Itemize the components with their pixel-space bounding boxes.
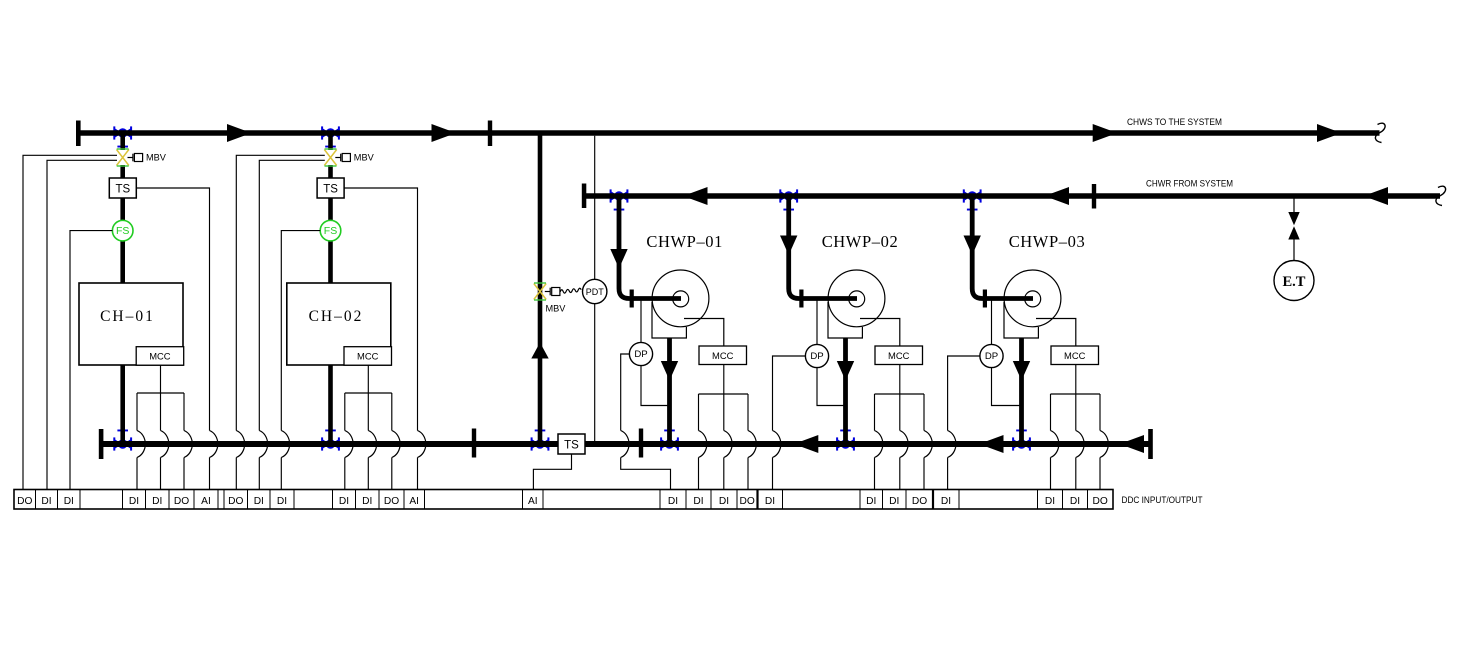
wire MCC5 splitter: [1051, 393, 1101, 395]
svg-text:CHWP–02: CHWP–02: [822, 232, 899, 251]
svg-text:DI: DI: [889, 496, 899, 507]
wire MCC3 to DI a: [698, 394, 700, 490]
instrument DP3 wire to discharge: [992, 368, 1022, 406]
wire hop FS2: [281, 431, 290, 458]
valve CHWP-01 suction stem: [614, 200, 625, 211]
strip divider 14: [355, 490, 357, 510]
starter MCC2 chiller: [344, 347, 392, 366]
wire MCC3 splitter: [699, 393, 749, 395]
svg-text:DI: DI: [941, 496, 951, 507]
wire DP1 to DI: [621, 354, 671, 490]
wire MCC2 splitter: [345, 392, 392, 394]
svg-text:DI: DI: [362, 496, 372, 507]
CHWP-03 suction flow arrow: [964, 236, 981, 256]
svg-text:TS: TS: [564, 439, 579, 451]
strip divider 26: [859, 490, 861, 510]
CHWP-03 discharge flow arrow: [1013, 361, 1030, 381]
svg-text:DI: DI: [254, 496, 264, 507]
pipe CHWP-02 suction drop and elbow: [789, 199, 857, 299]
valve CHWP-02 suction stem: [783, 200, 794, 211]
svg-text:DO: DO: [740, 496, 755, 507]
wire TS2 to AI: [344, 188, 417, 490]
strip divider 16: [403, 490, 405, 510]
CHWR left end cap: [582, 184, 587, 209]
pipe CH-02 discharge to bottom header: [328, 365, 333, 442]
wire MCC5 to DI a: [1050, 394, 1052, 490]
svg-text:MCC: MCC: [712, 350, 734, 361]
strip divider 11: [269, 490, 271, 510]
wire hop DP3: [948, 431, 957, 458]
svg-text:PDT: PDT: [586, 287, 605, 297]
CHWS flow arrow 2: [432, 124, 457, 142]
strip divider 7: [193, 490, 195, 510]
wire MCC1 to DI b: [160, 393, 162, 490]
strip divider 12: [293, 490, 295, 510]
strip divider 4: [122, 490, 124, 510]
starter MCC4 pump2: [875, 346, 923, 365]
wire hop TS1 over header: [210, 431, 219, 458]
wire TS1 to AI: [136, 188, 209, 490]
strip divider 8: [217, 490, 219, 510]
strip divider 10: [247, 490, 249, 510]
wire hop MCC2 a: [345, 431, 354, 458]
CHWS flow arrow 3: [1093, 124, 1118, 142]
strip divider 25: [782, 490, 784, 510]
wire hop MBV2 DO: [236, 431, 245, 458]
valve bypass stem: [535, 430, 546, 441]
wire MCC3 drop: [723, 365, 725, 395]
svg-text:DI: DI: [41, 496, 51, 507]
strip divider 15: [378, 490, 380, 510]
valve CH-02 return isolation: [321, 437, 340, 450]
pipe CHWR return header: [584, 193, 1440, 198]
wire CH-01 FS to chiller: [120, 241, 125, 285]
valve CHWP-02 suction (CHWR): [779, 189, 798, 202]
instrument TS3 on bottom header: [558, 434, 585, 454]
bottom header flow arrow 2: [979, 435, 1004, 453]
CHWS flange tick: [488, 121, 492, 147]
wire MCC1 to DI a: [136, 393, 138, 490]
strip divider 27: [882, 490, 884, 510]
svg-text:DI: DI: [277, 496, 287, 507]
pipe CHWP-03 suction drop and elbow: [972, 199, 1033, 299]
strip divider 29: [932, 490, 934, 510]
svg-text:DI: DI: [866, 496, 876, 507]
strip divider 33: [1087, 490, 1089, 510]
CHWP-01 discharge flow arrow: [661, 361, 678, 381]
valve CH-02 supply (CHWS): [321, 126, 340, 139]
starter MCC3 pump1: [699, 346, 747, 365]
strip divider 1: [35, 490, 37, 510]
svg-text:AI: AI: [409, 496, 419, 507]
wire E.T branch lower: [1293, 240, 1295, 261]
wire hop MCC1 c: [184, 431, 193, 458]
wire MCC2 to DO c: [391, 393, 393, 490]
instrument PDT differential pressure transmitter: [583, 279, 607, 303]
wire MCC5 drop: [1075, 365, 1077, 395]
CHWR flow arrow 2: [1045, 187, 1070, 205]
wire MCC3 to DI b: [723, 394, 725, 490]
wire DP2 to DI: [773, 356, 806, 490]
wire DP3 to DI: [948, 356, 980, 490]
svg-text:CHWR FROM SYSTEM: CHWR FROM SYSTEM: [1146, 179, 1233, 190]
valve CH-01 supply (CHWS): [113, 126, 132, 139]
wire E.T branch upper: [1293, 198, 1295, 212]
wire MCC3 to DO c: [747, 394, 749, 490]
svg-text:DO: DO: [228, 496, 243, 507]
wire MCC4 to DO c: [923, 394, 925, 490]
wire hop MBV2 DI: [259, 431, 268, 458]
strip divider 6: [168, 490, 170, 510]
svg-text:DO: DO: [174, 496, 189, 507]
strip divider 23: [736, 490, 738, 510]
strip divider 32: [1062, 490, 1064, 510]
wire MBV1 status DI: [47, 160, 117, 489]
wire MCC4 to DI a: [874, 394, 876, 490]
strip divider 18: [522, 490, 524, 510]
svg-text:DP: DP: [810, 351, 823, 362]
svg-text:DI: DI: [152, 496, 162, 507]
strip divider 21: [685, 490, 687, 510]
wire hop DP1: [621, 431, 630, 458]
valve CHWP-03 suction stem: [967, 200, 978, 211]
svg-text:CHWP–01: CHWP–01: [646, 232, 723, 251]
chiller CH-02: [287, 283, 391, 365]
wire PDT sense to bottom header: [594, 304, 596, 442]
valve CHWP-02 discharge stem: [840, 430, 851, 441]
wire CH-02 FS to chiller: [328, 241, 333, 285]
valve CHWP-01 discharge stem: [664, 430, 675, 441]
svg-text:MCC: MCC: [1064, 350, 1086, 361]
valve MBV1 motorized: [117, 148, 143, 166]
instrument DP1 wire to suction: [640, 301, 642, 343]
strip divider 22: [710, 490, 712, 510]
valve CHWP-03 discharge stem: [1016, 430, 1027, 441]
svg-text:DI: DI: [668, 496, 678, 507]
svg-text:DP: DP: [634, 349, 647, 360]
valve E.T relief upper triangle: [1288, 212, 1299, 225]
wire FS2 to DI: [281, 231, 320, 490]
instrument DP2 wire to discharge: [817, 368, 846, 406]
CHWP-02 suction flange: [799, 290, 803, 308]
wire MCC4 to DI b: [899, 394, 901, 490]
valve bypass at bottom header: [531, 437, 550, 450]
pump CHWP-02: [828, 270, 900, 346]
instrument DP2 differential pressure switch: [805, 344, 828, 367]
strip divider 20: [659, 490, 661, 510]
bypass flow arrow up: [531, 343, 548, 359]
valve CH-02 return stem: [325, 430, 336, 441]
valve E.T relief lower triangle: [1288, 226, 1299, 239]
wire hop MCC1 b: [161, 431, 170, 458]
svg-text:AI: AI: [201, 496, 211, 507]
strip divider 28: [905, 490, 907, 510]
svg-text:FS: FS: [324, 225, 337, 237]
strip divider 13: [332, 490, 334, 510]
wire TS3 to AI: [533, 454, 571, 490]
svg-text:DO: DO: [912, 496, 927, 507]
wire hop MCC3 b: [724, 431, 733, 458]
svg-text:CHWP–03: CHWP–03: [1009, 232, 1086, 251]
svg-text:TS: TS: [323, 183, 338, 195]
wire MCC2 to DI b: [367, 393, 369, 490]
valve CHWP-01 suction (CHWR): [610, 189, 629, 202]
strip divider 2: [57, 490, 59, 510]
bottom header flow arrow 3: [1120, 435, 1145, 453]
bottom header left end cap: [99, 429, 104, 459]
wire MCC5 to DI b: [1075, 394, 1077, 490]
strip divider 24: [756, 490, 758, 510]
wire CH-01 TS to FS: [120, 198, 125, 222]
pipe CHWS supply header: [78, 130, 1380, 136]
starter MCC1 chiller: [136, 347, 184, 366]
instrument E.T expansion tank: [1274, 261, 1314, 301]
strip divider 19: [542, 490, 544, 510]
wire MCC2 to DI a: [344, 393, 346, 490]
CHWR flow arrow 1: [683, 187, 708, 205]
pipe CHWP-01 suction drop and elbow: [619, 199, 681, 299]
instrument FS1 flow switch: [112, 220, 133, 241]
svg-text:DO: DO: [384, 496, 399, 507]
CHWP-01 suction flange: [630, 290, 634, 308]
valve CH-01 supply stem: [117, 137, 128, 148]
CHWR flange tick: [1092, 184, 1096, 209]
wire MCC1 splitter: [137, 392, 184, 394]
wire hop MCC4 a: [875, 431, 884, 458]
instrument TS2 temperature switch: [317, 178, 344, 198]
svg-text:CH–01: CH–01: [100, 308, 155, 325]
svg-text:E.T: E.T: [1283, 274, 1306, 290]
wire capillary MBV3 to PDT: [560, 288, 581, 293]
bottom header flow arrow 1: [794, 435, 819, 453]
wire hop MCC1 a: [137, 431, 146, 458]
wire hop DP2: [773, 431, 782, 458]
CHWR pipe break symbol: [1436, 186, 1446, 205]
CHWP-01 suction flow arrow: [610, 249, 627, 269]
wire hop MCC4 b: [900, 431, 909, 458]
svg-text:FS: FS: [116, 225, 129, 237]
wire MCC1 drop: [160, 365, 162, 393]
svg-text:DI: DI: [129, 496, 139, 507]
svg-text:MCC: MCC: [357, 351, 379, 362]
CHWP-02 discharge flow arrow: [837, 361, 854, 381]
instrument FS2 flow switch: [320, 220, 341, 241]
instrument DP3 wire to suction: [991, 301, 993, 345]
wire FS1 to DI: [70, 231, 112, 490]
bottom header flange tick 1: [472, 429, 476, 458]
wire CH-01 MBV to TS: [120, 165, 125, 179]
wire PDT sense to CHWS: [594, 136, 596, 280]
svg-text:DI: DI: [1045, 496, 1055, 507]
valve CH-02 supply stem: [325, 137, 336, 148]
wire hop MCC3 a: [699, 431, 708, 458]
wire hop MCC2 c: [392, 431, 401, 458]
wire hop MCC5 b: [1076, 431, 1085, 458]
svg-text:CHWS TO THE SYSTEM: CHWS TO THE SYSTEM: [1127, 117, 1222, 128]
pipe CHWP-02 discharge: [843, 338, 848, 442]
svg-text:DI: DI: [693, 496, 703, 507]
strip divider 30: [958, 490, 960, 510]
DDC input/output strip outline: [14, 490, 1113, 510]
CHWP-03 suction flange: [983, 290, 987, 308]
wire CH-02 TS to FS: [328, 198, 333, 222]
pipe bypass riser: [538, 135, 543, 441]
strip divider 31: [1037, 490, 1039, 510]
valve CHWP-03 discharge isolation: [1012, 437, 1031, 450]
svg-text:MBV: MBV: [546, 304, 567, 314]
pipe CH-01 discharge to bottom header: [120, 365, 125, 442]
valve CH-01 return isolation: [113, 437, 132, 450]
valve CHWP-02 discharge isolation: [836, 437, 855, 450]
wire hop MCC2 b: [368, 431, 377, 458]
CHWR flow arrow 3: [1364, 187, 1389, 205]
wire hop MCC5 a: [1051, 431, 1060, 458]
CHWS flow arrow 1: [227, 124, 252, 142]
wire CH-02 MBV to TS: [328, 165, 333, 179]
svg-text:DI: DI: [765, 496, 775, 507]
wire MCC4 drop: [899, 365, 901, 395]
strip divider 9: [223, 490, 225, 510]
instrument DP1 differential pressure switch: [629, 342, 652, 365]
instrument TS1 temperature switch: [109, 178, 136, 198]
svg-text:DI: DI: [1070, 496, 1080, 507]
wire MBV2 control DO: [236, 155, 324, 489]
valve MBV2 motorized: [324, 148, 350, 166]
svg-text:MCC: MCC: [149, 351, 171, 362]
svg-text:CH–02: CH–02: [309, 308, 364, 325]
svg-text:DDC INPUT/OUTPUT: DDC INPUT/OUTPUT: [1122, 495, 1203, 506]
valve MBV3 bypass motorized: [534, 282, 560, 300]
pipe bottom return header: [101, 441, 1151, 447]
svg-text:DO: DO: [1093, 496, 1108, 507]
pipe CHWP-03 discharge: [1019, 338, 1024, 442]
wire MBV1 control DO: [23, 155, 117, 489]
svg-text:MCC: MCC: [888, 350, 910, 361]
strip divider 3: [79, 490, 81, 510]
instrument DP2 wire to suction: [816, 301, 818, 345]
CHWS pipe break symbol: [1375, 123, 1385, 142]
wire CH-02 pipe stub valve to MBV: [328, 135, 333, 150]
svg-text:AI: AI: [528, 496, 538, 507]
pipe CHWP-01 discharge: [667, 338, 672, 442]
bottom header flange tick 2: [639, 429, 643, 458]
instrument DP1 wire to discharge: [641, 366, 670, 406]
valve CHWP-01 discharge isolation: [660, 437, 679, 450]
wire hop TS2 over header: [418, 431, 427, 458]
strip divider 5: [145, 490, 147, 510]
svg-text:DI: DI: [339, 496, 349, 507]
chiller CH-01: [79, 283, 183, 365]
wire hop MCC5 c: [1100, 431, 1109, 458]
svg-text:DO: DO: [17, 496, 32, 507]
svg-text:MBV: MBV: [146, 153, 167, 163]
wire MCC2 drop: [367, 365, 369, 393]
svg-text:DI: DI: [719, 496, 729, 507]
wire MCC5 to DO c: [1099, 394, 1101, 490]
bottom header right end cap: [1148, 429, 1153, 459]
svg-text:DP: DP: [985, 351, 998, 362]
wire MBV2 status DI: [259, 160, 325, 489]
wire hop MCC3 c: [748, 431, 757, 458]
strip divider 17: [424, 490, 426, 510]
wire hop MCC4 c: [924, 431, 933, 458]
valve CH-01 return stem: [117, 430, 128, 441]
svg-text:DI: DI: [64, 496, 74, 507]
pump CHWP-03: [1004, 270, 1076, 346]
CHWP-02 suction flow arrow: [780, 236, 797, 256]
CHWS left end cap: [76, 121, 81, 147]
wire MCC1 to DO c: [183, 393, 185, 490]
starter MCC5 pump3: [1051, 346, 1099, 365]
CHWS flow arrow 4: [1317, 124, 1342, 142]
wire CH-01 pipe stub valve to MBV: [120, 135, 125, 150]
instrument DP3 differential pressure switch: [980, 344, 1003, 367]
svg-text:TS: TS: [115, 183, 130, 195]
wire MCC4 splitter: [875, 393, 925, 395]
valve CHWP-03 suction (CHWR): [963, 189, 982, 202]
svg-text:MBV: MBV: [354, 153, 375, 163]
pump CHWP-01: [652, 270, 724, 346]
